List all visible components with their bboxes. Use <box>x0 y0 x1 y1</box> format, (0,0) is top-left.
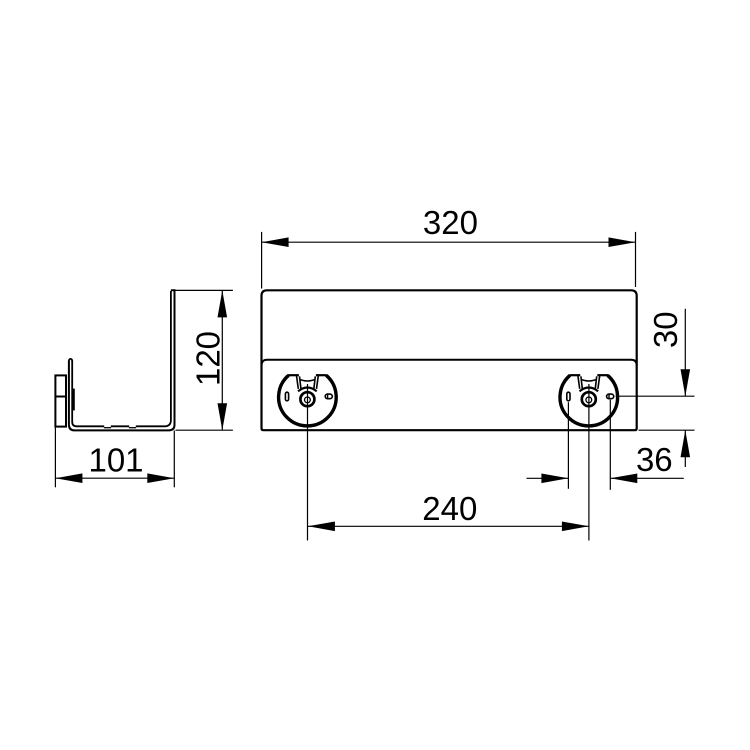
screw boss circle <box>582 392 596 406</box>
arrow up 30 <box>681 430 691 457</box>
arrow right 101 <box>147 473 174 483</box>
fork right leg outer edge <box>598 376 600 389</box>
extension line right <box>173 431 175 488</box>
extension line left <box>261 232 263 289</box>
left rose centerline <box>307 384 309 541</box>
bottom dash mark 2 <box>129 427 136 429</box>
dimension stub left <box>527 477 569 479</box>
right slot divider <box>327 394 329 400</box>
fork right leg inner edge <box>595 376 597 389</box>
dimension leader lower <box>684 430 686 467</box>
rose outer circle <box>560 375 618 426</box>
fork left leg inner edge <box>300 376 302 389</box>
svg-text:101: 101 <box>88 442 143 479</box>
dimension line 120 <box>221 290 223 430</box>
arrow right 240 <box>562 522 589 532</box>
arrow left 240 <box>308 522 335 532</box>
profile inner contour <box>72 291 171 426</box>
fork right leg outer edge <box>317 376 319 389</box>
extension line from right slot <box>616 395 695 397</box>
fork left leg outer edge <box>297 376 299 389</box>
arrow down 120 <box>218 403 228 430</box>
arrow left 320 <box>262 237 289 247</box>
screw head circle <box>586 397 592 403</box>
dimension line 320 <box>262 241 636 243</box>
screw boss circle <box>300 392 314 406</box>
bracket hook bar <box>72 389 74 411</box>
fork left leg inner edge <box>581 376 583 389</box>
svg-text:30: 30 <box>647 311 684 348</box>
extension line left <box>54 427 56 487</box>
back panel top cap <box>69 359 72 362</box>
extension line left slot <box>567 402 569 489</box>
dimension leader upper <box>684 309 686 396</box>
right slot divider <box>608 394 610 400</box>
wall plate divider line <box>55 396 67 398</box>
svg-text:240: 240 <box>422 490 477 527</box>
fork bridge arc <box>582 380 596 381</box>
extension line right <box>635 232 637 287</box>
gap chord nub right <box>316 374 327 376</box>
arrow up 120 <box>218 290 228 317</box>
dimension line 101 <box>55 477 174 479</box>
arrow right 320 <box>609 237 636 247</box>
bottom dash mark 1 <box>104 427 111 429</box>
arrow right 36 <box>541 474 568 484</box>
svg-text:120: 120 <box>190 331 227 386</box>
front view outer outline <box>262 290 637 430</box>
arrow left 101 <box>55 473 82 483</box>
extension line top <box>176 289 233 291</box>
left slot capsule <box>567 392 570 401</box>
cradle arc <box>580 388 599 392</box>
wall plate rectangle <box>55 375 66 426</box>
left slot capsule <box>285 392 288 401</box>
right rose centerline <box>588 384 590 541</box>
arrow left 36 <box>610 474 637 484</box>
profile outer contour <box>69 290 175 430</box>
dimension stub right <box>610 477 684 479</box>
gap chord nub left <box>288 374 299 376</box>
gap chord nub left <box>570 374 581 376</box>
right slot capsule <box>607 394 614 399</box>
svg-text:320: 320 <box>423 204 478 241</box>
right slot capsule <box>325 394 332 399</box>
front view shelf edge line <box>262 360 637 366</box>
extension line from shelf bottom right <box>639 429 695 431</box>
screw head circle <box>305 397 311 403</box>
svg-text:36: 36 <box>636 441 673 478</box>
fork left leg outer edge <box>578 376 580 389</box>
gap chord nub right <box>597 374 608 376</box>
fork bridge arc <box>300 380 314 381</box>
fork right leg inner edge <box>314 376 316 389</box>
extension line bottom <box>176 429 233 431</box>
cradle arc <box>298 388 317 392</box>
dimension line 240 <box>308 525 589 527</box>
rose outer circle <box>279 375 337 426</box>
extension line right slot <box>609 400 611 490</box>
arrow down 30 <box>681 369 691 396</box>
